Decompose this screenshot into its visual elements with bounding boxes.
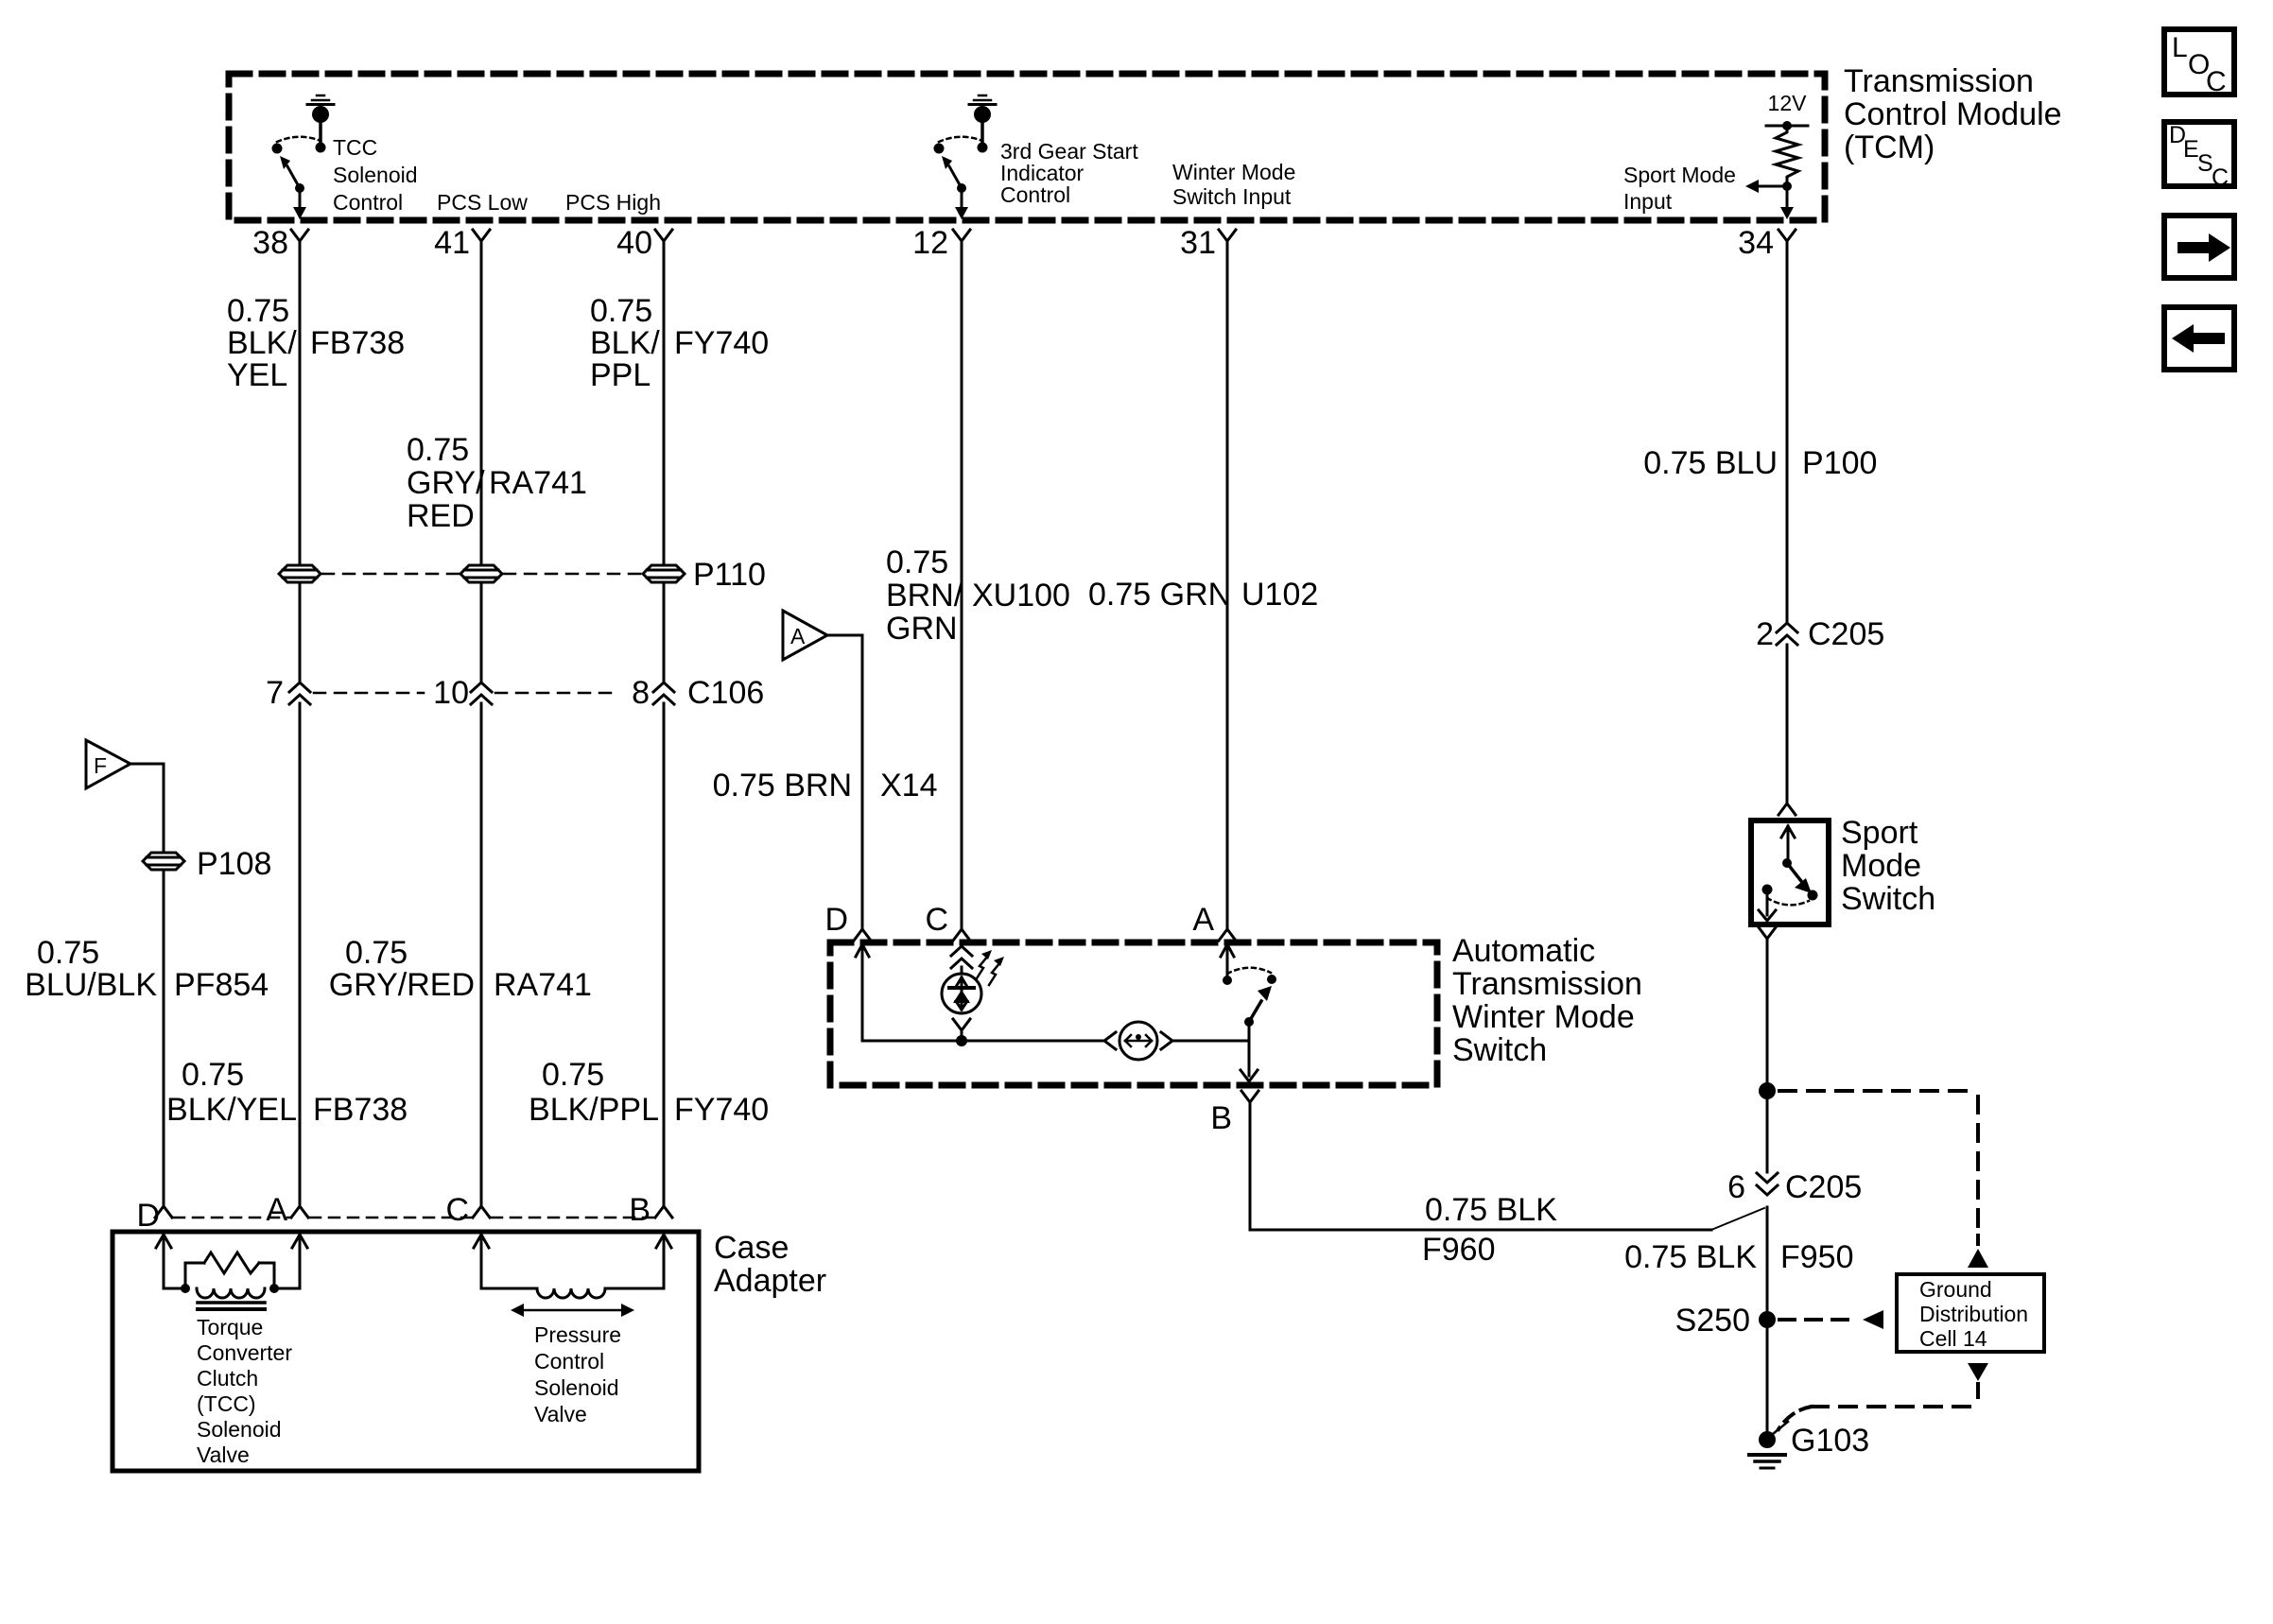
wire pin40 to case adapter pin B [663, 241, 666, 563]
svg-text:Automatic: Automatic [1452, 933, 1595, 969]
fork below sport mode switch [1759, 927, 1776, 939]
svg-text:2: 2 [1756, 616, 1774, 652]
svg-text:0.75: 0.75 [886, 544, 948, 580]
svg-text:Ground: Ground [1919, 1277, 1992, 1302]
svg-text:(TCM): (TCM) [1844, 130, 1935, 165]
svg-text:C205: C205 [1808, 616, 1884, 652]
svg-text:Mode: Mode [1841, 848, 1921, 884]
svg-text:0.75 BLU: 0.75 BLU [1643, 445, 1778, 481]
svg-text:FB738: FB738 [310, 325, 405, 361]
TCC solenoid valve coil L1 [156, 1235, 171, 1248]
svg-text:F950: F950 [1780, 1239, 1854, 1275]
svg-text:41: 41 [434, 225, 470, 261]
svg-text:C: C [445, 1192, 469, 1228]
svg-text:C205: C205 [1785, 1169, 1862, 1205]
dashed tie line to ground distribution cell [1779, 1089, 1978, 1093]
wire pin12 to winter switch pin C [961, 241, 963, 929]
svg-text:Input: Input [1623, 189, 1673, 214]
svg-text:GRY/RED: GRY/RED [329, 967, 475, 1003]
wire pin31 to winter switch pin A [1226, 241, 1229, 929]
3rd gear start indicator control driver Q2 [979, 95, 986, 97]
svg-text:F960: F960 [1422, 1232, 1496, 1268]
automatic transmission winter mode switch dashed box [830, 942, 1437, 1085]
svg-text:D: D [824, 902, 848, 938]
svg-text:FY740: FY740 [674, 1092, 769, 1128]
winter switch internal connector under C [951, 946, 972, 956]
svg-text:34: 34 [1738, 225, 1774, 261]
svg-text:Transmission: Transmission [1452, 966, 1642, 1002]
svg-text:G103: G103 [1791, 1423, 1869, 1459]
double arrow pressure adjust [518, 1309, 628, 1312]
svg-text:P108: P108 [197, 846, 271, 882]
junction node under LED [956, 1035, 967, 1046]
svg-text:Transmission: Transmission [1844, 63, 2034, 99]
svg-text:BLU/BLK: BLU/BLK [25, 967, 157, 1003]
grommet P108 [143, 853, 184, 870]
svg-text:A: A [790, 624, 806, 648]
winter switch internal wire to resistor [962, 1040, 1103, 1043]
wire pin41 to case adapter pin C [480, 241, 483, 563]
svg-text:Control Module: Control Module [1844, 96, 2062, 132]
svg-text:10: 10 [433, 675, 469, 711]
svg-text:Control: Control [1000, 182, 1070, 207]
svg-text:Torque: Torque [197, 1315, 263, 1339]
svg-text:RA741: RA741 [489, 465, 587, 501]
svg-text:C106: C106 [687, 675, 764, 711]
svg-text:Sport: Sport [1841, 815, 1918, 851]
svg-text:B: B [1210, 1100, 1232, 1136]
svg-text:RA741: RA741 [494, 967, 592, 1003]
svg-text:PPL: PPL [590, 357, 651, 393]
svg-text:P110: P110 [693, 557, 766, 593]
svg-text:Distribution: Distribution [1919, 1302, 2028, 1326]
junction node to ground distribution [1759, 1082, 1776, 1099]
svg-text:XU100: XU100 [972, 578, 1070, 613]
grommet P110 on wire 41 [460, 565, 502, 582]
off-page connector A [783, 611, 827, 660]
winter mode switch lever [1221, 944, 1234, 957]
svg-text:BRN/: BRN/ [886, 578, 963, 613]
svg-text:Switch: Switch [1452, 1032, 1547, 1068]
wire F to case adapter pin D [130, 763, 164, 766]
svg-text:Sport Mode: Sport Mode [1623, 163, 1736, 187]
svg-text:Clutch: Clutch [197, 1366, 258, 1391]
svg-text:L: L [2172, 32, 2188, 63]
svg-text:12: 12 [912, 225, 948, 261]
grommet P110 on wire 40 [643, 565, 685, 582]
svg-text:(TCC): (TCC) [197, 1391, 256, 1416]
svg-text:0.75: 0.75 [590, 293, 652, 329]
svg-text:Control: Control [534, 1349, 604, 1373]
ground G103 [1759, 1431, 1776, 1448]
svg-text:YEL: YEL [227, 357, 287, 393]
svg-text:BLK/: BLK/ [227, 325, 297, 361]
svg-text:Adapter: Adapter [714, 1263, 826, 1299]
svg-text:0.75 BRN: 0.75 BRN [713, 768, 852, 803]
svg-text:0.75: 0.75 [227, 293, 289, 329]
case adapter box [113, 1232, 699, 1471]
triangle into ground distribution [1968, 1249, 1988, 1268]
svg-text:BLK/: BLK/ [590, 325, 660, 361]
svg-text:Converter: Converter [197, 1340, 292, 1365]
inline contact right chevron [1161, 1032, 1172, 1049]
svg-text:S250: S250 [1675, 1303, 1750, 1339]
svg-text:C: C [2212, 164, 2229, 191]
ground distribution cell box [1897, 1274, 2044, 1352]
icon box LOC [2164, 29, 2234, 95]
inline contact left chevron [1104, 1032, 1116, 1049]
svg-text:GRY/: GRY/ [407, 465, 485, 501]
svg-text:Control: Control [333, 190, 403, 215]
triangle out of ground distribution [1968, 1363, 1988, 1381]
winter switch internal wire from D [856, 944, 869, 957]
transmission control module (TCM) dashed box [229, 74, 1825, 220]
svg-text:Switch Input: Switch Input [1172, 184, 1292, 209]
icon box DESC [2164, 122, 2234, 186]
wire winter B to C205 pin 6 [1249, 1102, 1252, 1230]
svg-text:0.75 BLK: 0.75 BLK [1425, 1192, 1557, 1228]
svg-text:PCS Low: PCS Low [437, 190, 528, 215]
sport mode switch box [1751, 821, 1829, 924]
svg-text:Cell 14: Cell 14 [1919, 1326, 1987, 1351]
dashed link P110 [322, 573, 459, 576]
self-resetting element lamp circle [1119, 1022, 1157, 1060]
svg-text:Pressure: Pressure [534, 1322, 621, 1347]
svg-text:31: 31 [1180, 225, 1216, 261]
svg-text:Solenoid: Solenoid [534, 1375, 619, 1400]
svg-text:38: 38 [252, 225, 288, 261]
svg-text:Valve: Valve [534, 1402, 587, 1426]
svg-text:FY740: FY740 [674, 325, 769, 361]
svg-text:PF854: PF854 [174, 967, 269, 1003]
svg-text:A: A [1192, 902, 1214, 938]
LED emission arrows [977, 956, 988, 978]
dashed return line to G103 [1976, 1384, 1980, 1407]
svg-text:Winter Mode: Winter Mode [1452, 999, 1635, 1035]
svg-text:TCC: TCC [333, 135, 377, 160]
svg-text:0.75: 0.75 [37, 935, 99, 971]
fork above sport mode switch [1778, 803, 1796, 815]
grommet P110 on wire 38 [279, 565, 321, 582]
svg-text:PCS High: PCS High [565, 190, 661, 215]
svg-text:P100: P100 [1802, 445, 1877, 481]
off-page connector F [86, 740, 130, 788]
svg-text:0.75: 0.75 [542, 1057, 604, 1093]
svg-text:A: A [266, 1192, 287, 1228]
LED indicator lamp [961, 967, 963, 974]
svg-text:40: 40 [616, 225, 652, 261]
svg-text:FB738: FB738 [313, 1092, 408, 1128]
svg-text:F: F [94, 753, 107, 778]
svg-text:RED: RED [407, 498, 475, 534]
wire pin38 to case adapter pin A [299, 241, 302, 563]
wire A to winter switch pin D [827, 634, 862, 637]
fork under LED [953, 1019, 970, 1030]
svg-text:B: B [629, 1192, 651, 1228]
svg-text:Valve: Valve [197, 1443, 250, 1467]
svg-text:12V: 12V [1768, 91, 1808, 115]
svg-text:C: C [925, 902, 948, 938]
svg-text:0.75 BLK: 0.75 BLK [1624, 1239, 1757, 1275]
pressure control solenoid valve coil L2 [474, 1235, 489, 1248]
svg-text:U102: U102 [1241, 577, 1318, 613]
svg-text:0.75: 0.75 [407, 432, 469, 468]
svg-text:BLK/YEL: BLK/YEL [166, 1092, 297, 1128]
icon box arrow left [2164, 307, 2234, 370]
svg-text:8: 8 [632, 675, 650, 711]
svg-text:BLK/PPL: BLK/PPL [529, 1092, 659, 1128]
svg-text:GRN: GRN [886, 611, 958, 647]
dashed link C106 [314, 692, 424, 695]
svg-text:0.75: 0.75 [345, 935, 408, 971]
svg-text:X14: X14 [880, 768, 938, 803]
svg-text:Case: Case [714, 1230, 789, 1266]
svg-text:0.75: 0.75 [182, 1057, 244, 1093]
svg-text:Solenoid: Solenoid [197, 1417, 282, 1442]
svg-text:0.75 GRN: 0.75 GRN [1088, 577, 1231, 613]
sport mode switch contacts [1781, 826, 1795, 838]
svg-text:Switch: Switch [1841, 881, 1935, 917]
icon box arrow right [2164, 216, 2234, 278]
svg-text:Solenoid: Solenoid [333, 163, 418, 187]
wire sport switch to ground [1766, 939, 1769, 1172]
svg-text:Winter Mode: Winter Mode [1172, 160, 1295, 184]
dashed link case adapter pins [174, 1217, 289, 1219]
svg-text:6: 6 [1727, 1169, 1745, 1205]
wire pin34 to sport mode switch [1786, 241, 1789, 621]
svg-text:7: 7 [266, 675, 284, 711]
TCC solenoid control driver Q1 [317, 95, 324, 97]
svg-text:C: C [2206, 66, 2227, 97]
